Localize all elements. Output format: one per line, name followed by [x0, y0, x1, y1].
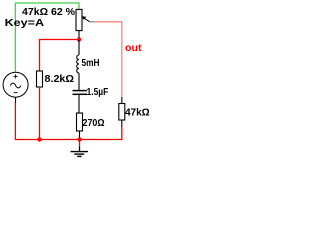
wire red bottom rail	[15, 102, 121, 140]
wire gray wiper lead	[90, 21, 95, 23]
AC source V1	[3, 72, 28, 97]
wire black 47k top stub	[121, 97, 123, 104]
wire red net: junction to 8.2k resistor	[40, 40, 80, 72]
wire green net: source top to potentiometer top	[15, 3, 79, 72]
svg-text:47kΩ: 47kΩ	[125, 108, 150, 119]
svg-text:270Ω: 270Ω	[83, 118, 105, 129]
label Key=A	[5, 18, 45, 29]
svg-text:5mH: 5mH	[82, 58, 100, 69]
label 1.5µF	[87, 87, 109, 98]
wire pink out net: wiper to 47k resistor	[95, 22, 122, 97]
resistor 270Ω body	[77, 113, 83, 131]
node junction rail 8.2k	[37, 137, 41, 141]
resistor 47kΩ body	[119, 104, 125, 121]
wire 270 bottom stub	[79, 131, 81, 140]
label 5mH	[82, 58, 100, 69]
label 8.2kΩ	[45, 74, 75, 85]
svg-text:8.2kΩ: 8.2kΩ	[45, 74, 75, 85]
wire pot bottom stub	[78, 31, 80, 40]
wire red ground stub	[79, 140, 81, 147]
wire inductor to capacitor	[78, 73, 80, 90]
wire capacitor to 270 resistor	[78, 95, 80, 113]
svg-text:Key=A: Key=A	[5, 18, 45, 29]
label out	[125, 43, 142, 54]
inductor 5mH coil	[77, 55, 79, 73]
wire source bottom stub	[15, 97, 17, 102]
svg-text:47kΩ 62 %: 47kΩ 62 %	[22, 7, 75, 18]
wire red: 8.2k bottom to rail	[39, 87, 41, 140]
wire red 47k to rail	[121, 127, 123, 141]
svg-text:out: out	[125, 43, 142, 54]
label 47kΩ	[125, 108, 150, 119]
label 270Ω	[83, 118, 105, 129]
wire 47k bottom stub	[121, 120, 123, 127]
resistor 8.2kΩ body	[37, 71, 43, 87]
svg-text:1.5µF: 1.5µF	[87, 87, 109, 98]
potentiometer wiper arrow	[81, 16, 89, 22]
node junction pot bottom	[77, 37, 81, 41]
potentiometer 47kΩ 62% body	[76, 9, 82, 30]
node junction rail center	[77, 137, 81, 141]
capacitor 1.5µF plates	[73, 91, 88, 95]
label 47kΩ 62 %	[22, 7, 75, 18]
ground	[71, 147, 89, 157]
wire junction to inductor	[78, 40, 80, 56]
